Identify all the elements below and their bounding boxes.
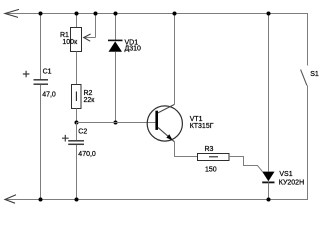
svg-text:КТ315Г: КТ315Г (190, 123, 214, 130)
resistor R1 100k (variable) (60, 28, 82, 52)
transistor VT1 KT315G (NPN) (147, 104, 214, 141)
svg-text:C2: C2 (78, 129, 87, 136)
wire R1 wiper arm (84, 13, 96, 38)
node top rail VS1 (267, 12, 271, 16)
svg-text:R3: R3 (205, 146, 214, 153)
wire C2 to bottom rail (76, 145, 78, 200)
svg-text:150: 150 (205, 166, 217, 173)
wire between R1 and R2 (76, 52, 78, 85)
wire right rail lower (307, 85, 309, 200)
wire R2 to node B (76, 109, 78, 123)
svg-text:470,0: 470,0 (78, 151, 96, 158)
svg-text:22к: 22к (84, 97, 96, 104)
svg-text:VT1: VT1 (190, 116, 203, 123)
svg-text:S1: S1 (310, 71, 319, 78)
capacitor C1 (polarized, 47,0) (23, 68, 56, 98)
svg-text:VS1: VS1 (279, 171, 292, 178)
wire C1 branch upper (40, 13, 42, 79)
wire collector to top rail (174, 13, 176, 104)
wire right rail upper (to S1) (307, 13, 309, 66)
resistor R2 22k (72, 85, 96, 109)
svg-text:Д310: Д310 (125, 45, 142, 52)
arrow top-left (off-page, points left) (5, 9, 19, 17)
svg-text:R2: R2 (84, 90, 93, 97)
svg-text:47,0: 47,0 (42, 91, 56, 98)
wire R3 to VS1 gate (229, 157, 262, 172)
arrow bottom-left (off-page, points left) (5, 195, 16, 203)
svg-text:C1: C1 (43, 68, 52, 75)
wire VD1 to node B wire (115, 52, 117, 123)
svg-text:100к: 100к (62, 39, 78, 46)
wire top rail (5, 13, 308, 15)
node top rail R1 (75, 12, 79, 16)
wire base (node B to VT1) (77, 122, 156, 124)
node top rail collector (173, 12, 177, 16)
wire C1 branch lower (40, 85, 42, 200)
wire emitter down and right to R3 (175, 142, 198, 157)
node top rail wiper (94, 12, 98, 16)
wire VS1 anode from top rail (268, 13, 270, 172)
wire VD1 branch upper (115, 13, 117, 40)
wire node B to C2 (76, 123, 78, 141)
wire VS1 cathode to bottom rail (268, 182, 270, 200)
wire R1 branch top (76, 13, 78, 28)
resistor R3 150 (198, 146, 230, 173)
node bottom rail VS1 (267, 198, 271, 202)
node B junction (base node) (75, 121, 79, 125)
node top rail C1 (39, 12, 43, 16)
node top rail VD1 (114, 12, 118, 16)
node bottom rail C2 (75, 198, 79, 202)
arrowhead R1 wiper (84, 34, 91, 41)
node bottom rail C1 (39, 198, 43, 202)
wire bottom rail (5, 199, 308, 201)
capacitor C2 (polarized, 470,0) (62, 129, 96, 159)
thyristor VS1 KU202N (262, 171, 304, 186)
node VD1-base junction (114, 121, 118, 125)
diode VD1 D310 (108, 39, 141, 52)
svg-text:R1: R1 (60, 32, 69, 39)
svg-text:КУ202Н: КУ202Н (279, 179, 304, 186)
switch S1 (301, 70, 319, 86)
